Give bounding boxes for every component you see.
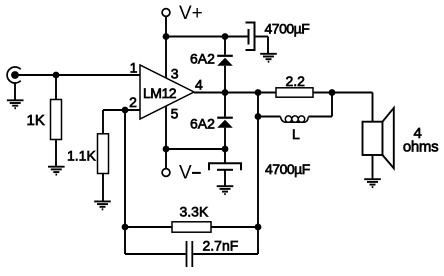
svg-text:3.3K: 3.3K bbox=[180, 204, 209, 220]
svg-text:6A2: 6A2 bbox=[190, 51, 215, 67]
wire R1 to ground bbox=[55, 140, 57, 167]
speaker LS1 bbox=[363, 108, 394, 168]
wire V+ terminal down bbox=[165, 17, 167, 37]
resistor 1.1K bbox=[98, 134, 109, 174]
diode D1 6A2 bbox=[217, 56, 233, 66]
node feedback right junction bbox=[255, 224, 262, 231]
wire 3.3K right bbox=[211, 226, 258, 228]
svg-text:6A2: 6A2 bbox=[190, 116, 215, 132]
wire Zobel bottom right bbox=[308, 93, 332, 117]
terminal V- bbox=[162, 169, 170, 177]
wire Zobel bottom left bbox=[258, 116, 281, 118]
svg-text:1.1K: 1.1K bbox=[67, 148, 96, 164]
node 2.2/L right junction bbox=[329, 89, 336, 96]
ground (speaker) bbox=[364, 179, 381, 187]
diode D2 6A2 bbox=[217, 118, 233, 128]
ground (C2) bbox=[217, 186, 234, 194]
svg-text:4700µF: 4700µF bbox=[265, 161, 310, 177]
wire jack to ground bbox=[14, 83, 16, 100]
wire bottom left bbox=[125, 253, 186, 255]
capacitor C1 4700uF bbox=[246, 23, 255, 51]
wire V- rail bbox=[166, 148, 225, 150]
wire C2 to ground bbox=[224, 170, 226, 186]
node feedback 3.3K left bbox=[122, 224, 129, 231]
wire pin 5 supply bbox=[165, 106, 167, 149]
wire output bbox=[194, 92, 276, 94]
node output/diode junction bbox=[222, 89, 229, 96]
svg-text:1: 1 bbox=[130, 60, 138, 76]
wire input to pin 1 bbox=[19, 74, 141, 76]
ground (input jack) bbox=[7, 100, 24, 108]
wire Zobel left drop bbox=[257, 93, 259, 228]
svg-text:4700µF: 4700µF bbox=[265, 21, 310, 37]
ground (C1) bbox=[260, 54, 277, 62]
wire junction to R1 bbox=[55, 75, 57, 99]
node V+ rail junction bbox=[163, 33, 170, 40]
svg-text:1K: 1K bbox=[27, 112, 45, 129]
resistor 1K bbox=[51, 100, 62, 140]
node input/R1 junction bbox=[53, 72, 60, 79]
wire C1 to ground bbox=[255, 37, 268, 54]
wire 3.3K left bbox=[125, 226, 172, 228]
svg-text:4: 4 bbox=[195, 77, 203, 93]
ground (1.1K) bbox=[94, 201, 111, 209]
node output/Zobel junction bbox=[255, 89, 262, 96]
ground (1K) bbox=[48, 167, 65, 175]
terminal V+ bbox=[162, 9, 170, 17]
wire diode column upper bbox=[224, 37, 226, 55]
svg-text:5: 5 bbox=[171, 106, 179, 122]
wire bottom right bbox=[193, 253, 258, 255]
svg-text:2.2: 2.2 bbox=[286, 73, 306, 89]
wire R2 to ground bbox=[102, 174, 104, 201]
node V- rail left junction bbox=[163, 146, 170, 153]
wire feedback right riser bbox=[257, 227, 259, 254]
svg-text:2: 2 bbox=[129, 94, 137, 110]
wire 2.2 to speaker bbox=[313, 92, 373, 94]
resistor 2.2 bbox=[276, 88, 313, 97]
wire V- terminal drop bbox=[165, 149, 167, 169]
wire D2 to V- rail bbox=[224, 128, 226, 163]
input jack J1 bbox=[7, 67, 21, 83]
svg-text:L: L bbox=[292, 126, 300, 142]
node Zobel lower-left junction bbox=[255, 113, 262, 120]
label 4 ohms bbox=[403, 125, 438, 156]
capacitor C2 4700uF bbox=[209, 163, 241, 170]
svg-text:3: 3 bbox=[171, 66, 179, 82]
node V- rail right junction bbox=[222, 146, 229, 153]
node pin2/feedback junction bbox=[122, 107, 129, 114]
node diode column top junction bbox=[222, 33, 229, 40]
wire speaker to ground bbox=[372, 155, 374, 179]
svg-text:ohms: ohms bbox=[403, 139, 438, 156]
svg-text:V: V bbox=[179, 163, 192, 184]
resistor 3.3K bbox=[172, 222, 211, 232]
wire D1 to output bbox=[224, 66, 226, 117]
wire feedback drop bbox=[124, 110, 126, 254]
svg-text:2.7nF: 2.7nF bbox=[203, 238, 239, 254]
wire V+ rail bbox=[166, 36, 248, 38]
wire pin 2 bbox=[103, 109, 140, 111]
capacitor C3 2.7nF bbox=[187, 241, 193, 267]
op-amp U1 LM12 bbox=[140, 65, 194, 119]
inductor L bbox=[281, 116, 309, 122]
svg-text:LM12: LM12 bbox=[143, 85, 177, 101]
wire down to R2 bbox=[102, 110, 104, 134]
wire speaker drop bbox=[372, 93, 374, 122]
wire pin 3 supply bbox=[165, 37, 167, 79]
svg-text:V+: V+ bbox=[179, 3, 203, 24]
